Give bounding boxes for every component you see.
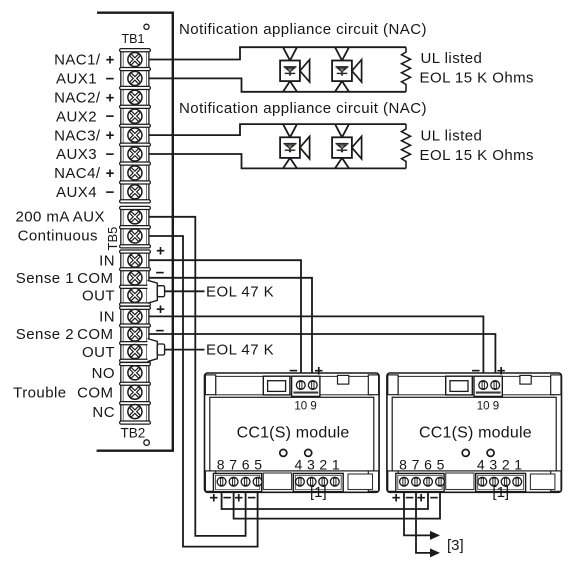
svg-text:−: − xyxy=(289,362,298,379)
svg-text:UL listed: UL listed xyxy=(421,127,483,144)
svg-text:+: + xyxy=(156,301,165,318)
svg-text:EOL 15 K Ohms: EOL 15 K Ohms xyxy=(420,147,535,164)
svg-text:AUX2: AUX2 xyxy=(56,108,97,125)
svg-text:NAC1/: NAC1/ xyxy=(54,52,101,69)
svg-text:+: + xyxy=(106,89,115,106)
svg-text:AUX4: AUX4 xyxy=(56,184,97,201)
svg-text:8 7 6 5: 8 7 6 5 xyxy=(217,456,263,472)
svg-text:AUX3: AUX3 xyxy=(56,146,97,163)
svg-text:IN: IN xyxy=(99,309,115,326)
svg-text:−: − xyxy=(156,264,165,281)
svg-text:+: + xyxy=(106,165,115,182)
svg-text:+: + xyxy=(209,489,218,506)
svg-text:−: − xyxy=(106,146,115,163)
svg-text:−: − xyxy=(223,489,232,506)
svg-text:200 mA AUX: 200 mA AUX xyxy=(15,209,105,226)
svg-text:[3]: [3] xyxy=(447,537,464,554)
svg-text:−: − xyxy=(106,70,115,87)
svg-text:+: + xyxy=(106,52,115,69)
svg-text:−: − xyxy=(156,323,165,340)
svg-text:+: + xyxy=(106,127,115,144)
svg-text:−: − xyxy=(106,108,115,125)
svg-text:Notification appliance circuit: Notification appliance circuit (NAC) xyxy=(179,100,427,117)
svg-text:TB2: TB2 xyxy=(121,426,146,441)
svg-text:−: − xyxy=(106,184,115,201)
svg-text:NC: NC xyxy=(92,404,115,421)
svg-text:Sense 1: Sense 1 xyxy=(16,270,74,287)
svg-text:EOL 15 K Ohms: EOL 15 K Ohms xyxy=(420,70,535,87)
svg-text:4 3 2 1: 4 3 2 1 xyxy=(294,456,340,472)
svg-text:Continuous: Continuous xyxy=(18,227,98,244)
svg-text:OUT: OUT xyxy=(82,288,115,305)
svg-text:Sense 2: Sense 2 xyxy=(16,326,74,343)
svg-text:EOL 47 K: EOL 47 K xyxy=(206,342,274,359)
svg-text:NAC4/: NAC4/ xyxy=(54,165,101,182)
svg-text:UL listed: UL listed xyxy=(421,50,483,67)
svg-text:10 9: 10 9 xyxy=(294,400,316,412)
svg-text:IN: IN xyxy=(99,252,115,269)
svg-text:NAC2/: NAC2/ xyxy=(54,90,101,107)
svg-text:+: + xyxy=(234,489,243,506)
svg-text:Notification appliance circuit: Notification appliance circuit (NAC) xyxy=(179,21,427,38)
svg-text:AUX1: AUX1 xyxy=(56,71,97,88)
svg-text:NO: NO xyxy=(92,365,115,382)
svg-text:OUT: OUT xyxy=(82,344,115,361)
svg-text:+: + xyxy=(156,243,165,260)
svg-text:[1]: [1] xyxy=(310,484,327,501)
svg-text:TB5: TB5 xyxy=(105,227,120,251)
svg-text:+: + xyxy=(314,362,323,379)
svg-text:NAC3/: NAC3/ xyxy=(54,127,101,144)
svg-text:EOL 47 K: EOL 47 K xyxy=(206,283,274,300)
svg-text:COM: COM xyxy=(77,326,113,343)
svg-text:CC1(S) module: CC1(S) module xyxy=(237,425,350,442)
svg-text:COM: COM xyxy=(77,270,113,287)
svg-text:COM: COM xyxy=(77,384,113,401)
svg-text:TB1: TB1 xyxy=(122,32,145,46)
svg-text:−: − xyxy=(247,489,256,506)
svg-text:Trouble: Trouble xyxy=(13,384,66,401)
